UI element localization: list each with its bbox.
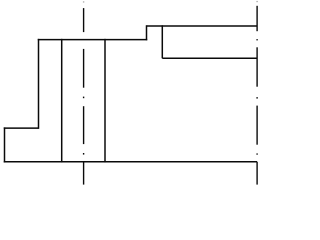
center line right: dot at y39.7 — [256, 39, 258, 40]
center line left: long dash 3 — [83, 106, 85, 144]
center line right: faint top dot — [256, 1, 258, 2]
outline: foot left edge x4.5 — [4, 127, 6, 162]
outline: inner vertical x105 — [104, 39, 106, 163]
center line right: long dash 2 — [256, 47, 258, 86]
outline: step riser at x146.5 — [146, 25, 148, 40]
center line right: dot at y97.8 — [256, 97, 258, 99]
outline: main body top edge y39.6 — [38, 39, 148, 41]
outline: inner vertical x61.7 — [61, 39, 63, 163]
center line left: faint top dot — [83, 1, 85, 2]
center line left: dot at y97 — [83, 97, 85, 99]
outline: boss inner left edge x162.3 — [161, 25, 163, 58]
outline: upper-right boss top edge — [147, 25, 258, 27]
center line right: long dash 4 below outline — [256, 162, 258, 185]
center line left: long dash 4 below outline — [83, 162, 85, 185]
center line right: dot at y154 — [256, 153, 258, 154]
outline: foot top ledge y128.1 — [4, 127, 39, 129]
center line right: long dash 1 — [256, 6, 258, 31]
center line left: long dash 1 — [83, 8, 85, 32]
center line right: long dash 3 — [256, 106, 258, 145]
outline: boss lower edge y58.3 — [162, 57, 257, 59]
outline: bottom edge y161.8 — [4, 161, 257, 163]
center line left: long dash 2 — [83, 49, 85, 88]
center line left: dot at y154 — [83, 153, 85, 155]
outline: main body left edge x38.5 — [38, 39, 40, 129]
